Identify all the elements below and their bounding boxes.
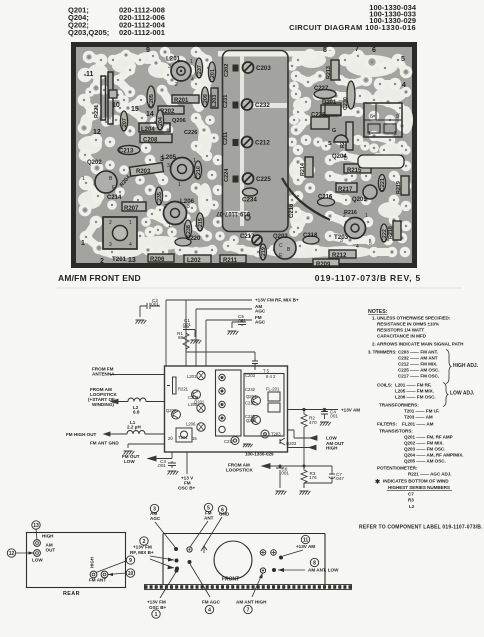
svg-text:C234: C234 xyxy=(242,197,257,204)
svg-text:REAR: REAR xyxy=(63,591,80,597)
label R204 xyxy=(119,175,132,189)
capacitor C3 xyxy=(168,461,176,468)
svg-text:ANTENNA: ANTENNA xyxy=(92,372,115,377)
svg-text:LOW ADJ.: LOW ADJ. xyxy=(450,391,475,397)
svg-text:L202: L202 xyxy=(187,258,201,264)
svg-text:470: 470 xyxy=(309,420,317,425)
resistor R203 xyxy=(129,163,163,177)
svg-text:R221: R221 xyxy=(178,387,189,392)
pin 7 callout am ant high xyxy=(236,568,267,614)
svg-text:R218: R218 xyxy=(388,226,394,239)
svg-text:R221 —— AGC ADJ.: R221 —— AGC ADJ. xyxy=(408,472,452,477)
pin 12 callout xyxy=(7,549,33,557)
svg-text:AGC: AGC xyxy=(255,320,266,325)
transistor Q203 xyxy=(273,234,296,259)
svg-text:Q201 —— FM, RF AMP: Q201 —— FM, RF AMP xyxy=(404,435,453,440)
svg-text:D: D xyxy=(344,156,348,162)
svg-text:R214: R214 xyxy=(300,163,306,176)
transistor Q205 xyxy=(352,185,377,203)
resistor R218 vertical xyxy=(388,221,401,240)
svg-text:AGC: AGC xyxy=(255,309,266,314)
coil L202 xyxy=(184,255,211,264)
trimmers in shield schematic xyxy=(219,374,225,380)
terminal am out low xyxy=(34,550,41,557)
svg-text:Q205 —— AM OSC.: Q205 —— AM OSC. xyxy=(404,459,446,464)
svg-text:7: 7 xyxy=(247,607,250,613)
svg-text:C216: C216 xyxy=(318,195,333,201)
svg-text:AM ANT HIGH: AM ANT HIGH xyxy=(236,600,267,605)
pin 13 callout xyxy=(32,521,40,540)
svg-text:3: 3 xyxy=(340,238,343,244)
resistor R219 vertical xyxy=(396,176,409,195)
svg-text:5: 5 xyxy=(401,56,405,63)
resistor R213 vertical xyxy=(326,60,339,80)
front panel box xyxy=(163,534,325,585)
svg-text:11: 11 xyxy=(303,537,309,543)
svg-text:3: 3 xyxy=(187,204,190,210)
capacitor C204 vertical xyxy=(156,110,164,130)
transistor Q204 xyxy=(328,128,348,162)
svg-text:C207: C207 xyxy=(122,118,128,131)
label C216 vertical xyxy=(289,203,295,218)
pad square xyxy=(233,65,239,72)
svg-text:NOTES:: NOTES: xyxy=(368,309,388,315)
speaker circle xyxy=(214,541,252,579)
svg-text:1: 1 xyxy=(178,182,181,188)
chassis hatched bottom xyxy=(145,585,352,590)
svg-text:FL201 —— AM: FL201 —— AM xyxy=(402,422,434,427)
upside-down board number xyxy=(216,210,250,216)
braces xyxy=(443,350,451,407)
svg-text:9: 9 xyxy=(396,114,399,120)
svg-text:GND: GND xyxy=(219,512,230,517)
svg-text:L206: L206 xyxy=(186,422,196,427)
svg-text:D201: D201 xyxy=(322,100,337,106)
svg-text:INDICATES BOTTOM OF WIND: INDICATES BOTTOM OF WIND xyxy=(383,479,449,484)
svg-text:9: 9 xyxy=(129,558,132,564)
coil L206 symbol xyxy=(197,423,205,431)
coil L206 xyxy=(164,198,195,229)
svg-text:C201: C201 xyxy=(210,69,216,82)
svg-text:Q206: Q206 xyxy=(172,118,186,124)
wire +13V rail xyxy=(166,300,252,366)
pad square xyxy=(233,139,239,146)
svg-text:C232 —— AM ANT: C232 —— AM ANT xyxy=(398,356,438,361)
fm ant terminals xyxy=(90,571,108,578)
svg-text:.047: .047 xyxy=(335,476,344,481)
pcb copper traces xyxy=(84,52,406,252)
svg-text:L2: L2 xyxy=(409,504,415,509)
svg-text:R215: R215 xyxy=(347,168,362,174)
wire FM OUT LOW xyxy=(148,458,165,460)
capacitor C2 xyxy=(140,303,160,317)
resistor R215 xyxy=(344,164,371,174)
svg-text:R203: R203 xyxy=(136,169,151,175)
fold line xyxy=(56,287,462,289)
svg-text:.001: .001 xyxy=(280,471,289,476)
svg-text:Q205: Q205 xyxy=(352,197,367,203)
coil L203 vertical xyxy=(211,88,218,108)
svg-text:6 4 2: 6 4 2 xyxy=(266,374,276,379)
svg-text:T201: T201 xyxy=(178,435,188,440)
wire HIGH xyxy=(288,447,317,449)
pcb board frame xyxy=(71,42,417,268)
pin 1 callout osc xyxy=(147,569,179,619)
resistor R217 xyxy=(336,183,357,193)
svg-text:OUT: OUT xyxy=(46,548,56,553)
svg-text:CIRCUIT DIAGRAM 100-1330-016: CIRCUIT DIAGRAM 100-1330-016 xyxy=(289,23,416,32)
label C224 xyxy=(224,168,230,182)
transistor Q203 symbol xyxy=(280,438,285,445)
svg-text:HIGH: HIGH xyxy=(90,557,95,568)
svg-text:4: 4 xyxy=(129,242,132,248)
transformer T203 case box xyxy=(364,103,402,137)
label C202 xyxy=(224,64,230,77)
brace labels xyxy=(450,363,479,397)
svg-text:1: 1 xyxy=(368,131,371,137)
svg-text:C202: C202 xyxy=(224,64,230,77)
svg-text:4: 4 xyxy=(356,244,359,250)
svg-text:L203: L203 xyxy=(212,95,218,107)
trimmer C232 xyxy=(242,99,271,110)
svg-text:+13V FM: +13V FM xyxy=(133,545,152,550)
svg-text:176: 176 xyxy=(309,475,317,480)
wire AM AGC xyxy=(196,309,252,366)
svg-text:8: 8 xyxy=(313,560,316,566)
pcb trace patches xyxy=(78,52,413,258)
svg-text:+13V AM: +13V AM xyxy=(296,544,315,549)
capacitor C208 xyxy=(140,134,172,144)
trimmer C212 xyxy=(242,137,271,148)
svg-text:L201 —— FM RF,: L201 —— FM RF, xyxy=(395,383,431,388)
capacitor C230 vertical xyxy=(343,81,355,110)
svg-text:R221: R221 xyxy=(94,105,100,118)
svg-text:C235: C235 xyxy=(157,192,163,205)
wire LOW xyxy=(288,430,318,438)
svg-text:C211: C211 xyxy=(223,132,229,145)
transistor Q202 xyxy=(82,160,117,193)
resistor R209 xyxy=(313,259,339,268)
pin 4 callout fm agc xyxy=(188,560,221,614)
svg-text:R201: R201 xyxy=(174,98,189,104)
svg-text:FRONT: FRONT xyxy=(222,577,239,583)
svg-text:OSC B+: OSC B+ xyxy=(178,486,196,491)
resistor R220 vertical xyxy=(340,122,353,150)
svg-text:FL-201: FL-201 xyxy=(266,387,280,392)
svg-text:Q204: Q204 xyxy=(246,394,257,399)
svg-text:2: 2 xyxy=(100,258,104,265)
svg-text:15: 15 xyxy=(131,106,139,113)
resistor R206 xyxy=(148,254,174,263)
terminal am out high xyxy=(34,540,41,547)
svg-text:L205: L205 xyxy=(188,402,198,407)
svg-text:C212 —— FM MIX.: C212 —— FM MIX. xyxy=(398,362,437,367)
coil L204 xyxy=(139,123,170,133)
pin 2 callout xyxy=(130,537,179,571)
svg-text:Q203 —— FM OSC.: Q203 —— FM OSC. xyxy=(404,447,445,452)
svg-text:L205: L205 xyxy=(162,154,177,161)
svg-text:1: 1 xyxy=(168,223,171,229)
arrow FM HIGH OUT xyxy=(104,432,110,436)
pin 10 callout xyxy=(108,569,135,577)
svg-text:.001: .001 xyxy=(182,322,191,327)
svg-text:.001: .001 xyxy=(237,318,246,323)
svg-text:G: G xyxy=(332,128,336,134)
capacitor C209 vertical xyxy=(201,87,209,107)
capacitor C6 xyxy=(276,466,284,488)
svg-text:C225: C225 xyxy=(245,414,256,419)
svg-text:6: 6 xyxy=(370,114,373,120)
svg-text:C231: C231 xyxy=(223,95,229,108)
svg-text:Q203: Q203 xyxy=(273,234,288,240)
svg-text:LOW: LOW xyxy=(124,459,135,464)
svg-text:.001: .001 xyxy=(150,302,159,307)
svg-text:7: 7 xyxy=(355,46,359,53)
pin 9 callout xyxy=(96,556,135,573)
svg-text:10: 10 xyxy=(112,102,120,109)
svg-text:LOOPSTICK: LOOPSTICK xyxy=(226,468,253,473)
svg-text:3: 3 xyxy=(109,242,112,248)
svg-text:OSC B+: OSC B+ xyxy=(149,605,167,610)
flying lead wire xyxy=(282,178,330,220)
label C211 xyxy=(223,132,229,145)
svg-text:1: 1 xyxy=(365,213,368,219)
capacitor C219 vertical xyxy=(260,244,267,260)
diode D201 xyxy=(321,100,341,116)
svg-text:3. TRIMMERS:: 3. TRIMMERS: xyxy=(368,350,397,355)
svg-text:C232: C232 xyxy=(255,102,270,109)
svg-text:C210: C210 xyxy=(196,166,202,179)
svg-text:WINDING): WINDING) xyxy=(92,402,114,407)
svg-text:AM ANT. LOW: AM ANT. LOW xyxy=(308,568,339,573)
svg-text:LOW: LOW xyxy=(32,558,43,563)
pin 6 callout gnd xyxy=(201,505,230,553)
svg-text:12: 12 xyxy=(9,551,15,557)
wire from am loopstick lower xyxy=(262,455,304,466)
capacitor C238 vertical xyxy=(184,220,192,238)
resistor R2 xyxy=(301,410,307,456)
capacitor C7 xyxy=(304,466,335,488)
svg-text:Q203,Q205;: Q203,Q205; xyxy=(68,28,109,37)
svg-text:C224: C224 xyxy=(224,168,230,182)
svg-text:8: 8 xyxy=(323,47,327,54)
svg-text:C219: C219 xyxy=(261,247,267,260)
svg-text:RF, MIX B+: RF, MIX B+ xyxy=(130,550,154,555)
svg-text:R219: R219 xyxy=(396,181,402,194)
diagram numbers right xyxy=(289,3,417,32)
svg-text:C216: C216 xyxy=(289,203,295,218)
svg-text:Q202 —— FM MIX.: Q202 —— FM MIX. xyxy=(404,441,444,446)
svg-text:R213: R213 xyxy=(326,66,332,79)
capacitor C234 xyxy=(242,188,258,204)
svg-text:R207: R207 xyxy=(124,206,139,212)
transformer T202 box xyxy=(176,428,192,442)
svg-text:C218: C218 xyxy=(303,233,318,239)
svg-text:+13V FM: +13V FM xyxy=(147,600,166,605)
svg-text:C214: C214 xyxy=(107,195,122,201)
svg-text:3: 3 xyxy=(160,156,164,163)
svg-text:C226: C226 xyxy=(184,130,197,136)
svg-text:LOW: LOW xyxy=(326,436,337,441)
svg-text:C225: C225 xyxy=(256,176,271,183)
trimmer C203 symbol on shield xyxy=(252,359,258,370)
pad square xyxy=(233,176,239,183)
arrow into L2 xyxy=(111,399,118,403)
capacitor C222 vertical xyxy=(380,224,388,242)
coil L201 symbol xyxy=(197,371,205,379)
svg-text:C215: C215 xyxy=(198,218,204,231)
rear panel box xyxy=(27,533,126,588)
svg-text:C7: C7 xyxy=(408,492,414,497)
underline highest series xyxy=(387,489,452,491)
svg-text:REFER TO COMPONENT LABEL 019-1: REFER TO COMPONENT LABEL 019-1107-073/B. xyxy=(359,525,483,531)
svg-text:HIGH ADJ.: HIGH ADJ. xyxy=(453,363,479,369)
capacitor C221 vertical xyxy=(378,175,386,192)
capacitor C201 vertical xyxy=(208,62,216,82)
svg-text:HIGHEST SERIES NUMBERS: HIGHEST SERIES NUMBERS xyxy=(388,485,450,490)
svg-text:3: 3 xyxy=(168,64,171,70)
pcb pin numbers xyxy=(81,46,406,265)
transistor Q204 symbol xyxy=(252,396,261,405)
filter FL201 box xyxy=(268,392,280,401)
transistor Q205 symbol xyxy=(252,416,261,425)
svg-text:1. UNLESS OTHERWISE SPECIFIED:: 1. UNLESS OTHERWISE SPECIFIED: xyxy=(372,316,451,321)
svg-text:4: 4 xyxy=(402,82,406,89)
svg-text:4: 4 xyxy=(191,77,194,83)
svg-text:COILS:: COILS: xyxy=(377,383,393,388)
wire FM AGC xyxy=(206,320,252,366)
svg-text:4: 4 xyxy=(208,607,211,613)
svg-text:C217 —— FM OSC.: C217 —— FM OSC. xyxy=(398,374,439,379)
resistor R214 vertical xyxy=(300,157,313,177)
svg-text:C232: C232 xyxy=(245,387,256,392)
svg-text:C212: C212 xyxy=(255,140,270,147)
svg-text:2: 2 xyxy=(164,204,167,210)
trimmer C217 symbol xyxy=(231,437,239,445)
potentiometer R221 symbol xyxy=(173,377,177,394)
coil L201 xyxy=(166,56,194,89)
svg-text:C228: C228 xyxy=(311,113,326,119)
svg-text:2.2 μH: 2.2 μH xyxy=(127,425,141,430)
svg-text:C213: C213 xyxy=(119,149,134,155)
svg-text:.001: .001 xyxy=(157,463,166,468)
svg-text:R209: R209 xyxy=(316,262,331,268)
pin 8 callout am ant low xyxy=(272,558,339,572)
capacitor C213 xyxy=(118,146,140,155)
svg-text:C225 —— AM OSC.: C225 —— AM OSC. xyxy=(398,368,439,373)
svg-text:ANT: ANT xyxy=(204,516,214,521)
svg-text:R212: R212 xyxy=(332,253,347,259)
svg-text:019-1107-07: 019-1107-07 xyxy=(216,210,250,216)
svg-text:14: 14 xyxy=(146,111,154,118)
pad square xyxy=(233,102,239,109)
resistor R202 xyxy=(158,106,184,115)
svg-text:R206: R206 xyxy=(150,257,165,263)
label C226 xyxy=(184,130,197,136)
svg-text:1: 1 xyxy=(129,220,132,226)
pin 3 callout am agc xyxy=(150,504,178,551)
svg-text:C203 —— FM ANT.: C203 —— FM ANT. xyxy=(398,350,438,355)
parts list left xyxy=(68,6,166,38)
svg-text:13: 13 xyxy=(128,257,136,264)
svg-text:FM HIGH OUT: FM HIGH OUT xyxy=(66,432,97,437)
resistor R212 xyxy=(329,250,356,259)
potentiometer R221 xyxy=(94,72,117,124)
capacitor C216 xyxy=(318,195,335,207)
svg-text:R217: R217 xyxy=(338,187,353,193)
capacitor C207 vertical xyxy=(120,111,128,131)
svg-text:019-1107-073/B REV, 5: 019-1107-073/B REV, 5 xyxy=(315,273,421,283)
svg-text:10: 10 xyxy=(128,571,134,577)
svg-text:13: 13 xyxy=(33,523,39,529)
pin 11 callout xyxy=(279,535,315,559)
svg-text:T 5: T 5 xyxy=(263,369,270,374)
wire R1 to trimmer C203 xyxy=(186,349,255,359)
svg-text:C203: C203 xyxy=(256,65,271,72)
svg-text:12: 12 xyxy=(93,129,101,136)
wire FM ANT GND xyxy=(128,444,165,448)
white component block top right xyxy=(358,155,404,168)
transformer T203 symbol xyxy=(261,430,269,438)
svg-text:R211: R211 xyxy=(223,258,238,264)
svg-text:Q204 —— AM, RF AMP/MIX.: Q204 —— AM, RF AMP/MIX. xyxy=(404,453,464,458)
wire +13V AM xyxy=(288,409,339,411)
svg-text:C217: C217 xyxy=(224,439,235,444)
svg-text:C: C xyxy=(279,243,283,249)
svg-text:2: 2 xyxy=(109,220,112,226)
star symbol xyxy=(375,479,380,486)
capacitor C205 vertical xyxy=(147,86,155,108)
svg-text:11: 11 xyxy=(86,71,94,78)
svg-text:C204: C204 xyxy=(158,117,164,130)
svg-text:TRANSFORMERS:: TRANSFORMERS: xyxy=(379,403,419,408)
svg-text:TRANSISTORS:: TRANSISTORS: xyxy=(379,429,413,434)
svg-text:L204: L204 xyxy=(141,127,155,133)
transformer T203 xyxy=(334,210,372,250)
front right pins xyxy=(260,550,266,556)
svg-text:T203 —— AM: T203 —— AM xyxy=(404,415,433,420)
svg-text:L205 —— FM MIX.: L205 —— FM MIX. xyxy=(395,389,434,394)
svg-text:R216: R216 xyxy=(344,210,357,216)
rf shield outline xyxy=(218,51,333,232)
resistor R201 xyxy=(172,95,205,106)
svg-text:6: 6 xyxy=(372,47,376,54)
svg-text:L206 —— FM OSC.: L206 —— FM OSC. xyxy=(395,395,436,400)
pcb pads xyxy=(78,47,413,259)
svg-text:L201: L201 xyxy=(187,374,197,379)
svg-text:+13V FM RF, MIX B+: +13V FM RF, MIX B+ xyxy=(255,298,299,303)
capacitor C235 vertical xyxy=(155,187,163,205)
schematic board outline xyxy=(165,366,288,452)
svg-text:1: 1 xyxy=(81,240,85,247)
transistor Q202 symbol xyxy=(172,410,181,419)
svg-text:+13V AM: +13V AM xyxy=(341,408,360,413)
svg-text:68: 68 xyxy=(178,335,184,340)
resistor R211 xyxy=(220,255,246,264)
svg-text:C220: C220 xyxy=(186,236,201,242)
capacitor C214 xyxy=(107,195,122,201)
svg-text:FM ANT GND: FM ANT GND xyxy=(90,441,119,446)
ground in box xyxy=(243,444,253,447)
capacitor C4 xyxy=(321,410,328,420)
svg-text:100-1330-029: 100-1330-029 xyxy=(245,452,274,457)
svg-text:C221: C221 xyxy=(380,178,386,191)
svg-text:1: 1 xyxy=(190,59,193,65)
svg-text:2θ: 2θ xyxy=(168,436,173,441)
svg-text:Q203: Q203 xyxy=(286,441,297,446)
label Q206 xyxy=(172,118,186,124)
svg-text:C209: C209 xyxy=(203,94,209,107)
